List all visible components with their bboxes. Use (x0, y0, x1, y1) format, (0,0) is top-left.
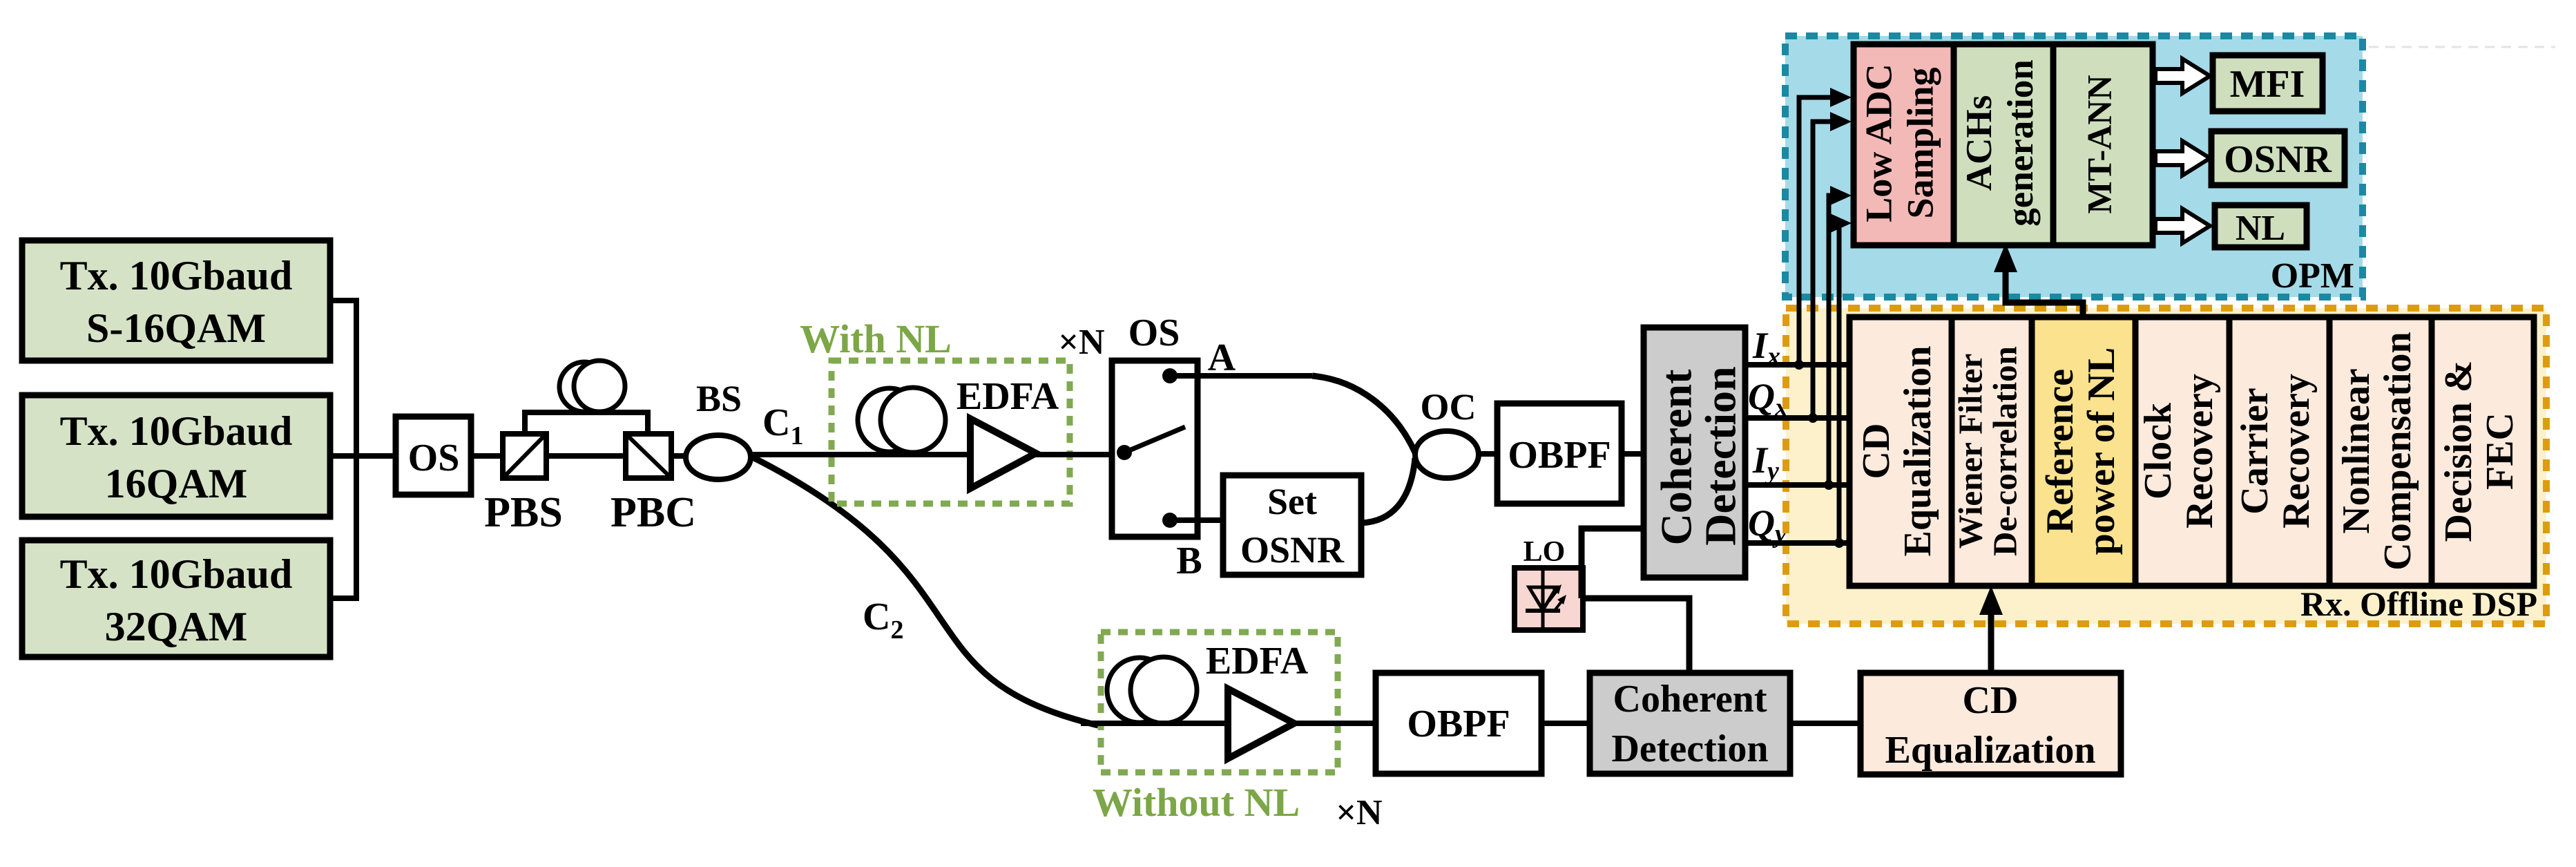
svg-text:Carrier: Carrier (2233, 388, 2276, 514)
wire (354, 298, 359, 601)
svg-text:OSNR: OSNR (1240, 529, 1345, 571)
svg-text:LO: LO (1524, 536, 1566, 568)
svg-text:Reference: Reference (2039, 369, 2082, 533)
svg-text:Detection: Detection (1611, 727, 1768, 770)
DSP stage: Carrier Recovery (2229, 317, 2329, 586)
svg-text:Iy: Iy (1752, 439, 1779, 486)
svg-text:Tx. 10Gbaud: Tx. 10Gbaud (60, 253, 293, 298)
PBS (polarization beam splitter) (484, 434, 563, 536)
junction node Ix (1794, 360, 1804, 370)
svg-text:De-correlation: De-correlation (1986, 346, 2024, 556)
svg-text:Coherent: Coherent (1613, 678, 1767, 721)
svg-text:S-16QAM: S-16QAM (86, 305, 266, 351)
arrow CD Equalization up to DSP (1988, 598, 1995, 673)
svg-text:ACHs: ACHs (1959, 95, 1999, 191)
svg-text:Coherent: Coherent (1652, 369, 1701, 545)
OPM dashed container (1785, 36, 2363, 297)
DSP stage: Wiener Filter De-correlation (1951, 317, 2032, 586)
svg-text:Detection: Detection (1696, 366, 1745, 545)
transmitter Tx3 32QAM (22, 540, 330, 657)
OSNR box (2211, 131, 2345, 185)
DSP stage: CD Equalization (1849, 317, 1952, 586)
LO laser box (1515, 568, 1583, 630)
OBPF box (top) (1497, 403, 1622, 504)
wire curve Set OSNR to OC (1361, 458, 1415, 523)
junction node Qx (1808, 413, 1818, 423)
block arrow to NL (2155, 209, 2210, 243)
svg-text:Nonlinear: Nonlinear (2335, 368, 2378, 534)
BS (beam splitter) ellipse (686, 435, 751, 479)
switch node A (1162, 368, 1178, 383)
svg-text:OPM: OPM (2271, 256, 2354, 296)
wire curve A to OC (1312, 376, 1415, 452)
svg-text:Tx. 10Gbaud: Tx. 10Gbaud (60, 408, 293, 454)
transmitter Tx2 16QAM (22, 395, 330, 517)
EDFA amplifier triangle (bottom) (1228, 689, 1294, 759)
svg-text:With NL: With NL (800, 316, 952, 361)
NL box (2215, 205, 2307, 248)
svg-text:×N: ×N (1336, 793, 1382, 832)
DSP stage: Reference power of NL (2032, 317, 2135, 586)
MT-ANN box (2053, 44, 2153, 245)
DSP stage: Clock Recovery (2135, 317, 2229, 586)
switch input node (1117, 445, 1132, 460)
svg-text:CD: CD (1855, 423, 1898, 479)
OC (optical coupler) ellipse (1415, 431, 1479, 478)
wire C1 main line BS to OS switch (750, 452, 1113, 457)
wire A out of switch (1170, 373, 1312, 379)
wire Iy (1745, 482, 1849, 488)
ACHs generation box (1954, 44, 2053, 245)
svg-text:Recovery: Recovery (2178, 374, 2221, 528)
wire OS to PBS (471, 453, 503, 459)
svg-text:EDFA: EDFA (957, 375, 1059, 418)
svg-text:OBPF: OBPF (1508, 434, 1611, 477)
switch node B (1162, 513, 1178, 528)
svg-text:EDFA: EDFA (1206, 640, 1309, 683)
DSP stage: Nonlinear Compensation (2329, 317, 2432, 586)
wire OC to OBPF (1479, 451, 1497, 457)
wire bottom main line (1081, 721, 1590, 726)
Low ADC Sampling box (1854, 44, 1954, 245)
wire tap Qy up to OPM (1839, 223, 1840, 543)
wire Coherent Detection to CD Equalization (1790, 721, 1861, 726)
svg-text:×N: ×N (1058, 323, 1104, 362)
svg-text:C1: C1 (762, 401, 803, 450)
svg-text:power of NL: power of NL (2080, 347, 2123, 555)
svg-text:MT-ANN: MT-ANN (2079, 75, 2118, 214)
wire (330, 453, 396, 459)
faint gray dashed line top right (2369, 46, 2555, 48)
svg-text:MFI: MFI (2230, 63, 2305, 106)
wire C2 curve from BS down to lower branch (753, 457, 1098, 725)
svg-text:Equalization: Equalization (1896, 346, 1939, 557)
svg-text:A: A (1208, 336, 1236, 379)
svg-text:B: B (1176, 540, 1202, 582)
switch lever (1124, 427, 1185, 452)
optical switch OS (selector) (1112, 361, 1198, 537)
CD Equalization box (bottom) (1861, 673, 2121, 774)
svg-text:OBPF: OBPF (1407, 703, 1510, 745)
svg-text:BS: BS (696, 378, 742, 419)
svg-text:C2: C2 (863, 596, 903, 645)
svg-text:Qx: Qx (1748, 376, 1788, 422)
svg-text:NL: NL (2236, 209, 2285, 248)
wire (330, 298, 356, 303)
wire Qx (1745, 415, 1849, 421)
svg-text:OS: OS (408, 437, 460, 479)
svg-text:Decision &: Decision & (2437, 361, 2480, 542)
svg-text:Clock: Clock (2137, 402, 2180, 499)
svg-text:generation: generation (2001, 59, 2041, 226)
svg-text:Sampling: Sampling (1899, 67, 1941, 218)
block arrow to OSNR (2155, 141, 2210, 175)
fiber coil (PM fiber) (559, 361, 625, 412)
svg-text:Compensation: Compensation (2376, 332, 2419, 570)
svg-text:OC: OC (1421, 386, 1477, 428)
PBC (polarization beam combiner) (611, 434, 696, 536)
wire LO to bottom Coherent Detection (1582, 598, 1689, 675)
wire Ix (1745, 362, 1849, 368)
wire OBPF to Coherent Detection (bottom) (1541, 721, 1590, 726)
svg-text:32QAM: 32QAM (105, 604, 248, 649)
svg-text:Equalization: Equalization (1885, 729, 2096, 772)
svg-text:Wiener Filter: Wiener Filter (1951, 354, 1989, 549)
wire tap Iy up to OPM (1829, 196, 1840, 485)
Coherent Detection box (bottom) (1590, 673, 1790, 774)
svg-text:CD: CD (1963, 679, 2019, 722)
svg-text:Rx. Offline DSP: Rx. Offline DSP (2300, 584, 2537, 623)
junction node Qy (1834, 538, 1844, 548)
svg-text:OSNR: OSNR (2224, 138, 2332, 181)
Without NL dashed box (1101, 632, 1338, 772)
svg-text:PBS: PBS (484, 489, 563, 536)
wire Qy (1745, 540, 1849, 546)
MFI box (2213, 55, 2323, 111)
svg-text:Tx. 10Gbaud: Tx. 10Gbaud (60, 551, 293, 597)
svg-text:Recovery: Recovery (2275, 374, 2318, 528)
svg-text:16QAM: 16QAM (105, 461, 248, 506)
junction node Iy (1824, 480, 1834, 490)
svg-text:Low ADC: Low ADC (1858, 64, 1899, 222)
wire through coil (832, 452, 1113, 457)
With NL dashed box (832, 361, 1070, 504)
DSP dashed container (1786, 308, 2546, 624)
wire OBPF to Coherent Detection (1622, 451, 1644, 457)
wire Reference power of NL up to OPM (ACHs) (2006, 253, 2083, 317)
EDFA amplifier triangle (top) (970, 419, 1036, 488)
svg-text:PBC: PBC (611, 489, 696, 536)
wire (330, 596, 356, 601)
svg-text:OS: OS (1128, 312, 1180, 354)
wire bus from Tx boxes (330, 298, 396, 601)
Set OSNR box (1223, 475, 1361, 575)
wire tap Ix up to OPM (1799, 97, 1840, 365)
wire tap Qx up to OPM (1813, 122, 1840, 418)
fiber coil (With NL) (858, 388, 945, 452)
wire B to Set OSNR (1170, 517, 1223, 523)
svg-text:Set: Set (1267, 481, 1317, 522)
transmitter Tx1 S-16QAM (22, 240, 330, 361)
fiber loop bracket between PBS and PBC (525, 412, 648, 434)
wire LO to top Coherent Detection (1582, 528, 1644, 598)
optical switch OS (left) (396, 417, 471, 495)
Coherent Detection box (top) (1644, 327, 1745, 578)
OBPF box (bottom) (1376, 673, 1541, 774)
wire PBS to PBC (546, 453, 626, 459)
wire PBC to BS (671, 453, 687, 459)
DSP stage: Decision and FEC (2432, 317, 2534, 586)
svg-text:FEC: FEC (2479, 412, 2521, 490)
fiber coil (Without NL) (1107, 657, 1197, 723)
block arrow to MFI (2155, 59, 2210, 93)
svg-text:Without NL: Without NL (1093, 780, 1300, 825)
